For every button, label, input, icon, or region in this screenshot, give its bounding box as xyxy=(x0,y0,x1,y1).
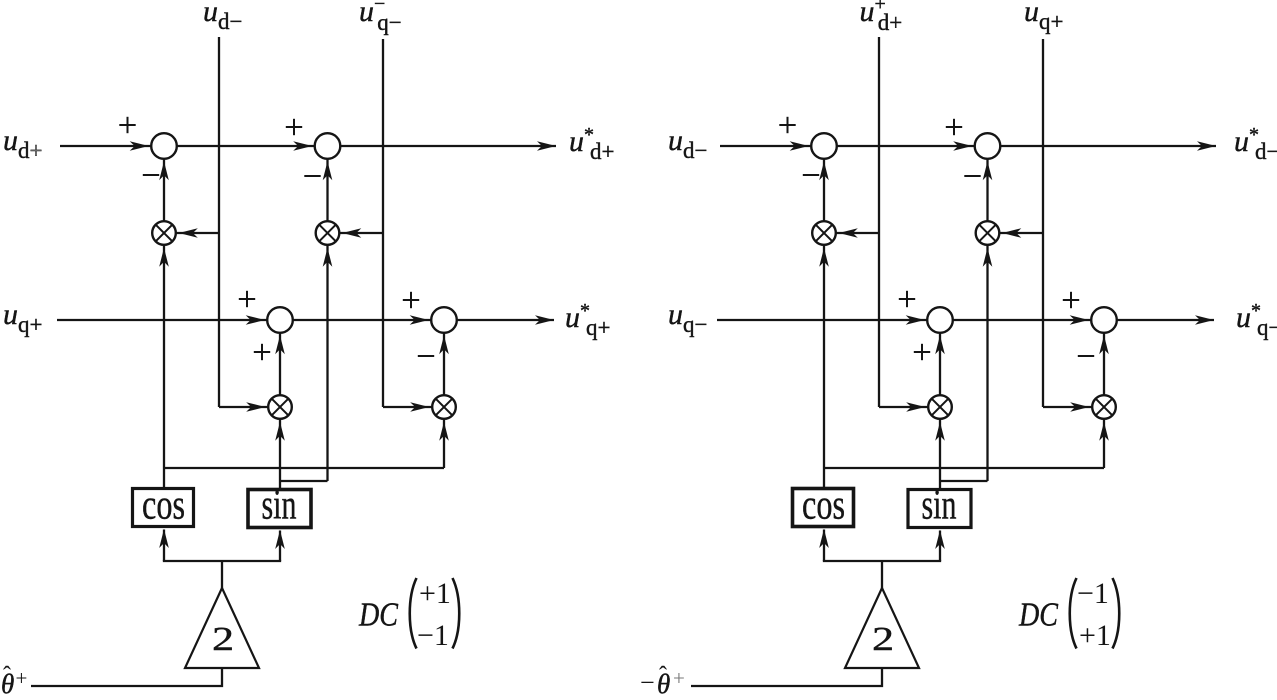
summing junction S4 xyxy=(431,307,457,333)
input label -theta-hat+ (right gain input) xyxy=(640,663,685,699)
wire cos distribution cos2 xyxy=(824,467,1104,469)
wire input u_q+ to summer S3 xyxy=(57,319,267,321)
arrow into multiplier X8 bottom xyxy=(1099,422,1109,441)
svg-text:sin: sin xyxy=(262,483,297,529)
svg-text:DC: DC xyxy=(1018,597,1058,634)
wire sin branch step sin1 xyxy=(280,480,328,482)
wire summer S7 to summer S8 xyxy=(953,319,1091,321)
wire sin to multiplier X7 xyxy=(939,419,941,489)
plus sign at summer S1 xyxy=(119,124,135,126)
arrow into multiplier X7 bottom xyxy=(935,422,945,441)
plus sign at summer S3 bottom xyxy=(254,351,270,353)
wire summer S5 to summer S6 xyxy=(837,145,975,147)
wire cos branch to multiplier X8 xyxy=(1103,419,1105,468)
arrow into summer S1 xyxy=(130,141,149,151)
arrow into summer S1 bottom xyxy=(159,161,169,180)
wire output u*_d+ xyxy=(340,145,556,147)
arrow into summer S3 bottom xyxy=(275,335,285,354)
multiplier X5 xyxy=(812,221,836,245)
minus sign at summer S8 bottom xyxy=(1078,355,1094,357)
arrow into summer S8 xyxy=(1070,315,1089,325)
arrow into summer S5 bottom xyxy=(819,161,829,180)
block cos1 xyxy=(133,483,194,529)
multiplier X8 xyxy=(1092,395,1116,419)
plus sign at summer S2 xyxy=(286,126,302,128)
multiplier X7 xyxy=(928,395,952,419)
plus sign at summer S3 xyxy=(239,298,255,300)
multiplier X4 xyxy=(432,395,456,419)
wire corner u_q- to multiplier X4 xyxy=(383,406,432,408)
wire sin branch step sin2 xyxy=(940,480,988,482)
wire vertical input u_q- xyxy=(382,39,384,407)
wire branch u_d- to multiplier X1 xyxy=(176,232,219,234)
arrow into summer S3 xyxy=(246,315,265,325)
wire vertical input u_d- xyxy=(218,37,220,407)
svg-text:−1: −1 xyxy=(417,619,449,652)
wire gain stub xyxy=(881,561,883,589)
arrow into multiplier X2 xyxy=(342,228,361,238)
plus sign at summer S5 xyxy=(779,124,795,126)
arrow into multiplier X8 xyxy=(1070,402,1089,412)
wire branch u_q+ to multiplier X6 xyxy=(999,232,1043,234)
svg-text:+1: +1 xyxy=(419,577,451,610)
wire gain distribution bar xyxy=(163,560,281,562)
arrow into summer S2 xyxy=(293,141,312,151)
arrow into summer S6 xyxy=(953,141,972,151)
block cos2 xyxy=(793,483,854,529)
wire output u*_q- xyxy=(1117,319,1214,321)
arrow into multiplier X2 bottom xyxy=(323,248,333,267)
label DC(-1,+1) (right) xyxy=(1018,577,1119,652)
arrow output u*_q- xyxy=(1195,315,1214,325)
multiplier X1 xyxy=(152,221,176,245)
arrow into summer S7 bottom xyxy=(935,335,945,354)
block sin1 xyxy=(248,483,311,529)
wire summer S3 to summer S4 xyxy=(293,319,431,321)
svg-text:+: + xyxy=(673,666,685,690)
wire corner u_q+ to multiplier X8 xyxy=(1043,406,1092,408)
svg-text:ˆ: ˆ xyxy=(659,663,667,689)
arrow into multiplier X7 xyxy=(906,402,925,412)
minus sign at summer S2 xyxy=(304,175,320,177)
wire branch u_q- to multiplier X2 xyxy=(339,232,383,234)
wire multiplier X7 to summer S7 xyxy=(939,333,941,395)
summing junction S8 xyxy=(1091,307,1117,333)
svg-text:DC: DC xyxy=(358,597,398,634)
wire gain distribution bar xyxy=(823,560,941,562)
svg-text:−: − xyxy=(640,668,655,697)
wire sin branch to multiplier X6 xyxy=(986,245,988,481)
summing junction S6 xyxy=(975,133,1001,159)
wire multiplier X3 to summer S3 xyxy=(279,333,281,395)
wire input u_q- to summer S7 xyxy=(717,319,927,321)
wire multiplier X2 to summer S2 xyxy=(326,159,328,221)
multiplier X6 xyxy=(976,221,1000,245)
arrow into multiplier X3 xyxy=(246,402,265,412)
summing junction S1 xyxy=(151,133,177,159)
arrow into summer S7 xyxy=(906,315,925,325)
svg-text:cos: cos xyxy=(142,483,185,529)
wire multiplier X4 to summer S4 xyxy=(443,333,445,395)
svg-text:cos: cos xyxy=(802,483,845,529)
wire gain input from -theta+ xyxy=(691,668,882,686)
minus sign at summer S1 xyxy=(143,174,159,176)
arrow output u*_d+ xyxy=(537,141,556,151)
svg-text:+: + xyxy=(16,666,28,690)
minus sign at summer S6 xyxy=(964,175,980,177)
wire branch u+_d+ to multiplier X5 xyxy=(836,232,879,234)
summing junction S2 xyxy=(315,133,341,159)
arrow into sin1 xyxy=(275,530,285,549)
multiplier X3 xyxy=(268,395,292,419)
arrow into multiplier X6 bottom xyxy=(983,248,993,267)
wire multiplier X8 to summer S8 xyxy=(1103,333,1105,395)
arrow into summer S4 xyxy=(410,315,429,325)
plus sign at summer S7 xyxy=(899,298,915,300)
svg-text:−1: −1 xyxy=(1077,577,1109,610)
wire gain output to sin2 xyxy=(939,531,941,562)
svg-text:ˆ: ˆ xyxy=(3,663,11,689)
wire summer S1 to summer S2 xyxy=(177,145,315,147)
input label theta-hat+ (left gain input) xyxy=(1,663,27,699)
arrow into multiplier X4 xyxy=(410,402,429,412)
wire cos branch to multiplier X4 xyxy=(443,419,445,468)
wire multiplier X6 to summer S6 xyxy=(986,159,988,221)
arrow into cos1 xyxy=(159,529,169,548)
gain block 2b xyxy=(845,588,919,668)
wire sin to multiplier X3 xyxy=(279,419,281,489)
arrow into multiplier X1 xyxy=(179,228,198,238)
wire multiplier X1 to summer S1 xyxy=(163,159,165,221)
wire cos distribution cos1 xyxy=(164,467,444,469)
plus sign at summer S6 xyxy=(946,126,962,128)
minus sign at summer S5 xyxy=(803,174,819,176)
arrow into multiplier X5 bottom xyxy=(819,248,829,267)
plus sign at summer S8 xyxy=(1063,299,1079,301)
arrow into cos2 xyxy=(819,529,829,548)
svg-text:sin: sin xyxy=(922,483,957,529)
arrow into multiplier X4 bottom xyxy=(439,422,449,441)
wire gain stub xyxy=(221,561,223,589)
wire input u_d- to summer S5 xyxy=(720,145,811,147)
summing junction S3 xyxy=(267,307,293,333)
wire multiplier X5 to summer S5 xyxy=(823,159,825,221)
wire gain output to cos1 xyxy=(163,530,165,562)
gain block 2a xyxy=(185,588,259,668)
wire corner u+_d+ to multiplier X7 xyxy=(879,406,928,408)
arrow into summer S8 bottom xyxy=(1099,335,1109,354)
arrow output u*_q+ xyxy=(535,315,554,325)
plus sign at summer S4 xyxy=(403,299,419,301)
arrow into multiplier X5 xyxy=(839,228,858,238)
minus sign at summer S4 bottom xyxy=(418,355,434,357)
plus sign at summer S7 bottom xyxy=(914,351,930,353)
arrow into summer S4 bottom xyxy=(439,335,449,354)
wire cos to multiplier X1 xyxy=(163,245,165,488)
wire vertical input u+_d+ xyxy=(878,37,880,407)
arrow into sin2 xyxy=(935,530,945,549)
arrow into multiplier X1 bottom xyxy=(159,248,169,267)
wire vertical input u_q+ xyxy=(1042,39,1044,407)
arrow into summer S5 xyxy=(790,141,809,151)
wire input u_d+ to summer S1 xyxy=(60,145,151,147)
svg-text:2: 2 xyxy=(212,620,234,658)
arrow into multiplier X3 bottom xyxy=(275,422,285,441)
wire sin branch to multiplier X2 xyxy=(326,245,328,481)
wire gain input from theta+ xyxy=(31,668,222,686)
wire output u*_d- xyxy=(1000,145,1216,147)
multiplier X2 xyxy=(316,221,340,245)
arrow into summer S2 bottom xyxy=(323,161,333,180)
wire gain output to cos2 xyxy=(823,530,825,562)
wire corner u_d- to multiplier X3 xyxy=(219,406,268,408)
wire cos to multiplier X5 xyxy=(823,245,825,488)
label DC(+1,-1) (left) xyxy=(358,577,459,652)
arrow into summer S6 bottom xyxy=(983,161,993,180)
wire output u*_q+ xyxy=(457,319,554,321)
block sin2 xyxy=(908,483,971,529)
summing junction S7 xyxy=(927,307,953,333)
wire gain output to sin1 xyxy=(279,531,281,562)
arrow into multiplier X6 xyxy=(1002,228,1021,238)
summing junction S5 xyxy=(811,133,837,159)
arrow output u*_d- xyxy=(1197,141,1216,151)
svg-text:2: 2 xyxy=(872,620,894,658)
svg-text:+1: +1 xyxy=(1079,619,1111,652)
